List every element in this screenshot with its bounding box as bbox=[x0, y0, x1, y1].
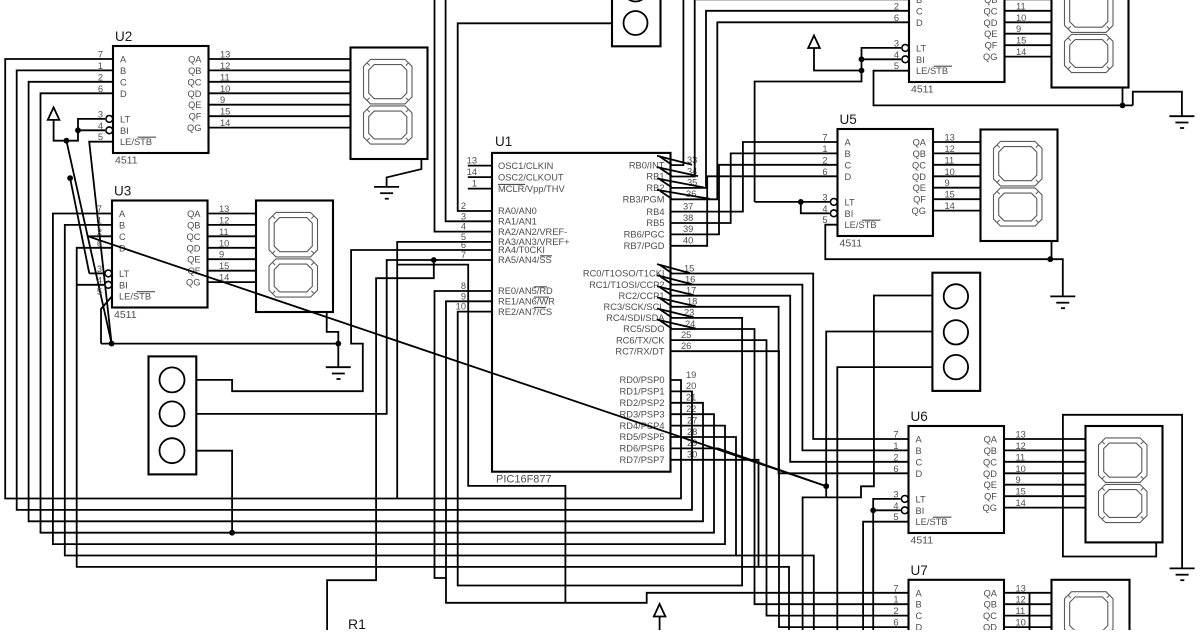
wire J2 pin2 to U1 RA5 bbox=[196, 260, 492, 414]
svg-text:RA4/T0CKI: RA4/T0CKI bbox=[498, 245, 545, 255]
svg-text:7: 7 bbox=[893, 430, 898, 440]
wire long diagonal RD6 net bbox=[88, 236, 826, 486]
svg-text:QG: QG bbox=[983, 52, 997, 62]
svg-text:OSC1/CLKIN: OSC1/CLKIN bbox=[498, 161, 553, 171]
svg-text:RB6/PGC: RB6/PGC bbox=[624, 230, 665, 240]
svg-text:QE: QE bbox=[913, 183, 926, 193]
svg-text:A: A bbox=[119, 209, 126, 219]
wire U5 QF to display bbox=[933, 198, 981, 200]
svg-text:25: 25 bbox=[681, 330, 691, 340]
wire U5 QB to display bbox=[933, 152, 981, 154]
svg-text:RD7/PSP7: RD7/PSP7 bbox=[620, 455, 665, 465]
decorative diagonal at RB1 bbox=[657, 167, 698, 176]
wire DS5 common bbox=[1051, 242, 1053, 260]
svg-text:LE/STB: LE/STB bbox=[120, 137, 152, 147]
wire U5 input A from RB4 bbox=[671, 142, 838, 212]
connector J3 circle 1 bbox=[944, 284, 968, 308]
svg-text:RD0/PSP0: RD0/PSP0 bbox=[620, 375, 665, 385]
4511 decoder U7 bbox=[909, 580, 1005, 635]
wire U4 QD to display bbox=[1005, 21, 1052, 23]
decorative diagonal short at RB3 bbox=[660, 191, 672, 199]
decorative diagonal at RC1 bbox=[657, 275, 692, 284]
svg-text:1: 1 bbox=[97, 215, 102, 225]
wire U6 input A from RC0 bbox=[671, 274, 909, 440]
svg-text:6: 6 bbox=[893, 464, 898, 474]
wire U7 QB to display bbox=[1004, 603, 1052, 605]
svg-text:14: 14 bbox=[1016, 47, 1026, 57]
svg-text:QA: QA bbox=[984, 435, 998, 445]
svg-text:10: 10 bbox=[945, 167, 955, 177]
svg-text:11: 11 bbox=[220, 72, 230, 82]
svg-text:RA0/AN0: RA0/AN0 bbox=[498, 206, 537, 216]
wire U4 input A from RB0 bbox=[671, 0, 910, 165]
svg-text:A: A bbox=[916, 588, 923, 598]
wire RA3 branch down to bus bbox=[396, 265, 398, 499]
svg-text:9: 9 bbox=[1016, 475, 1021, 485]
svg-text:QG: QG bbox=[187, 123, 201, 133]
svg-text:2: 2 bbox=[97, 227, 102, 237]
wire ground stem U3 bbox=[337, 344, 339, 368]
wire U3 BI bbox=[77, 284, 104, 286]
svg-text:OSC2/CLKOUT: OSC2/CLKOUT bbox=[498, 172, 564, 182]
junction VDD diagonal top bbox=[67, 175, 73, 181]
wire U6 LT bbox=[873, 499, 900, 630]
overline CS bbox=[534, 306, 546, 308]
svg-text:C: C bbox=[916, 611, 923, 621]
svg-text:BI: BI bbox=[916, 55, 925, 65]
svg-text:LE/STB: LE/STB bbox=[916, 517, 948, 527]
wire top connector to U1 RA0 bbox=[458, 23, 612, 211]
wire U1 pin 14 stub bbox=[468, 176, 492, 178]
svg-text:7: 7 bbox=[461, 250, 466, 260]
svg-text:RE2/AN7/CS: RE2/AN7/CS bbox=[498, 307, 552, 317]
svg-text:BI: BI bbox=[119, 280, 128, 290]
svg-text:11: 11 bbox=[1016, 452, 1026, 462]
inversion bubble of U4 bbox=[902, 56, 909, 63]
svg-text:3: 3 bbox=[894, 38, 899, 48]
7-segment display DS4 bbox=[1052, 0, 1129, 88]
wire U7 QD to display bbox=[1004, 626, 1052, 628]
svg-text:RB3/PGM: RB3/PGM bbox=[623, 195, 665, 205]
svg-text:12: 12 bbox=[1016, 441, 1026, 451]
connector J2 circle 1 bbox=[160, 367, 185, 392]
svg-text:5: 5 bbox=[98, 132, 103, 142]
wire U2 QE to display bbox=[209, 104, 351, 106]
svg-text:10: 10 bbox=[1016, 618, 1026, 628]
svg-text:RA5/AN4/SS: RA5/AN4/SS bbox=[498, 255, 552, 265]
inversion bubble of U3 bbox=[105, 270, 112, 277]
svg-text:11: 11 bbox=[945, 155, 955, 165]
wire U7 input D from RC7 bbox=[671, 351, 909, 627]
svg-text:LT: LT bbox=[916, 43, 926, 53]
svg-text:QB: QB bbox=[187, 220, 200, 230]
wire U1 RE1 down with step to U7 A feed bbox=[446, 301, 909, 603]
connector J2 left bbox=[149, 356, 197, 474]
connector J2 circle 2 bbox=[160, 401, 185, 426]
wire U3 QD to display bbox=[208, 247, 257, 249]
svg-text:QC: QC bbox=[983, 457, 997, 467]
svg-text:QG: QG bbox=[912, 206, 926, 216]
wire U2 QD to display bbox=[209, 92, 351, 94]
svg-text:QC: QC bbox=[912, 160, 926, 170]
wire U3 LE/STB bbox=[101, 296, 112, 343]
wire U7 input C from RC6 bbox=[671, 340, 909, 615]
svg-text:4: 4 bbox=[893, 501, 898, 511]
7-segment display DS7 bbox=[1052, 580, 1130, 634]
svg-text:QC: QC bbox=[188, 77, 202, 87]
svg-text:9: 9 bbox=[220, 95, 225, 105]
wire U2 QG to display bbox=[209, 127, 351, 129]
decorative diagonal short at RC2 bbox=[660, 287, 672, 295]
junction DS4 common bbox=[1120, 103, 1126, 109]
svg-text:5: 5 bbox=[97, 287, 102, 297]
svg-text:RC3/SCK/SCL: RC3/SCK/SCL bbox=[604, 302, 665, 312]
svg-text:15: 15 bbox=[1016, 487, 1026, 497]
4511 decoder U6 bbox=[909, 426, 1005, 533]
svg-text:RB5: RB5 bbox=[646, 218, 664, 228]
inversion bubble of U5 bbox=[830, 210, 837, 217]
overline STB of U3 bbox=[137, 291, 156, 293]
decorative diagonal short at RB0 bbox=[660, 157, 672, 165]
overline RD bbox=[534, 286, 547, 288]
junction U6 BI bbox=[870, 507, 876, 513]
inversion bubble of U2 bbox=[106, 116, 113, 123]
wire U5 QA to display bbox=[933, 141, 981, 143]
wire U4 LE/STB to ground rail bbox=[874, 71, 1133, 106]
svg-text:19: 19 bbox=[686, 370, 696, 380]
wire RD6 stub and diagonal bbox=[671, 448, 827, 486]
7-segment display DS5 bbox=[981, 130, 1058, 242]
svg-text:4: 4 bbox=[461, 222, 466, 232]
svg-text:QD: QD bbox=[912, 172, 926, 182]
svg-text:MCLR/Vpp/THV: MCLR/Vpp/THV bbox=[498, 184, 565, 194]
svg-text:3: 3 bbox=[98, 109, 103, 119]
svg-text:A: A bbox=[120, 55, 127, 65]
overline MCLR bbox=[498, 183, 525, 185]
svg-text:13: 13 bbox=[1016, 430, 1026, 440]
svg-text:12: 12 bbox=[219, 215, 229, 225]
overline STB of U2 bbox=[138, 136, 157, 138]
svg-text:7: 7 bbox=[98, 50, 103, 60]
wire U5 input C from RB6 bbox=[671, 165, 838, 235]
svg-text:R1: R1 bbox=[348, 616, 366, 630]
wire U3 QC to display bbox=[208, 235, 257, 237]
overline STB of U4 bbox=[934, 65, 953, 67]
wire bus line 6 continuation bbox=[759, 567, 790, 630]
svg-text:B: B bbox=[845, 149, 851, 159]
wire U6 QE to display bbox=[1004, 484, 1086, 486]
svg-text:QB: QB bbox=[984, 0, 997, 5]
svg-text:B: B bbox=[916, 446, 922, 456]
wire U6 BI bbox=[873, 509, 900, 511]
svg-text:LE/STB: LE/STB bbox=[119, 292, 151, 302]
svg-text:RC0/T1OSO/T1CKI: RC0/T1OSO/T1CKI bbox=[583, 269, 665, 279]
svg-text:RC5/SDO: RC5/SDO bbox=[623, 324, 664, 334]
svg-text:11: 11 bbox=[1016, 606, 1026, 616]
svg-text:RC2/CCP1: RC2/CCP1 bbox=[619, 291, 665, 301]
svg-text:RC4/SDI/SDA: RC4/SDI/SDA bbox=[606, 313, 665, 323]
svg-text:QB: QB bbox=[913, 149, 926, 159]
connector J1 pin circle bbox=[624, 11, 648, 35]
wire to ground top right bbox=[1133, 92, 1182, 117]
4511 decoder U5 bbox=[838, 129, 934, 236]
svg-text:B: B bbox=[916, 600, 922, 610]
svg-text:5: 5 bbox=[894, 61, 899, 71]
svg-text:RD1/PSP1: RD1/PSP1 bbox=[620, 387, 665, 397]
svg-text:RC7/RX/DT: RC7/RX/DT bbox=[615, 346, 664, 356]
wire U5 input D from RB7 bbox=[671, 176, 838, 246]
power arrow VDD near U4 bbox=[808, 36, 820, 49]
wire U5 QE to display bbox=[933, 187, 981, 189]
svg-text:A: A bbox=[845, 138, 852, 148]
svg-text:4: 4 bbox=[98, 121, 103, 131]
decorative diagonal at RB0 bbox=[657, 156, 692, 165]
wire U3 LT bbox=[89, 272, 104, 274]
wire diagonal branch to U3 LT bbox=[70, 178, 89, 273]
decorative diagonal at RC2 bbox=[657, 286, 694, 295]
wire U1 RA2 up bbox=[435, 0, 493, 232]
junction U2 LT/BI bbox=[75, 127, 81, 133]
svg-text:QE: QE bbox=[187, 255, 200, 265]
wire J2 pin1 to U1 RA4 bbox=[196, 250, 492, 391]
svg-text:1: 1 bbox=[472, 179, 477, 189]
svg-text:QC: QC bbox=[983, 611, 997, 621]
junction DS3 common and ground bbox=[335, 341, 341, 347]
connector J3 circle 2 bbox=[944, 320, 968, 344]
wire U4 QE to display bbox=[1005, 33, 1052, 35]
svg-text:B: B bbox=[119, 220, 125, 230]
svg-text:U2: U2 bbox=[115, 29, 132, 44]
svg-text:26: 26 bbox=[681, 341, 691, 351]
ground bottom right bbox=[1170, 568, 1195, 580]
svg-text:QG: QG bbox=[186, 278, 200, 288]
svg-text:LT: LT bbox=[119, 269, 129, 279]
svg-text:LT: LT bbox=[916, 494, 926, 504]
svg-text:C: C bbox=[119, 232, 126, 242]
decorative diagonal short at RC5 bbox=[660, 321, 672, 329]
wire ground rail under U3 bbox=[101, 343, 338, 345]
junction U2 BI wire to diagonal bbox=[64, 138, 70, 144]
wire U7 input B from RC5 bbox=[671, 329, 909, 604]
4511 decoder U4 bbox=[909, 0, 1005, 82]
svg-text:9: 9 bbox=[945, 178, 950, 188]
svg-text:7: 7 bbox=[822, 133, 827, 143]
svg-text:BI: BI bbox=[120, 126, 129, 136]
wire J3 pin1 chain with jog bbox=[803, 296, 933, 631]
svg-text:RD5/PSP5: RD5/PSP5 bbox=[620, 432, 665, 442]
svg-text:U5: U5 bbox=[840, 112, 857, 127]
svg-text:5: 5 bbox=[893, 512, 898, 522]
wire U7 QA to display bbox=[1004, 592, 1052, 594]
wire U2 input B bbox=[17, 70, 692, 510]
svg-text:QE: QE bbox=[984, 480, 997, 490]
wire U4 input B from RB1 bbox=[671, 0, 910, 177]
svg-text:QF: QF bbox=[985, 41, 998, 51]
connector J3 right bbox=[932, 273, 980, 391]
svg-text:B: B bbox=[916, 0, 922, 5]
connector J2 circle 3 bbox=[160, 438, 185, 463]
svg-text:3: 3 bbox=[822, 192, 827, 202]
wire U2 LT bbox=[54, 119, 105, 141]
wire U6 QD to display bbox=[1004, 472, 1086, 474]
junction U4 BI bbox=[859, 56, 865, 62]
svg-text:4511: 4511 bbox=[114, 309, 137, 321]
wire J2 pin3 down bbox=[196, 451, 232, 533]
svg-text:QA: QA bbox=[188, 55, 202, 65]
svg-text:14: 14 bbox=[467, 167, 477, 177]
svg-text:15: 15 bbox=[1016, 36, 1026, 46]
svg-text:D: D bbox=[120, 89, 127, 99]
ground mid right bbox=[1050, 296, 1075, 308]
svg-text:2: 2 bbox=[893, 606, 898, 616]
7-segment display DS6 bbox=[1086, 426, 1163, 542]
svg-text:10: 10 bbox=[1016, 464, 1026, 474]
svg-text:12: 12 bbox=[1016, 595, 1026, 605]
svg-text:RA1/AN1: RA1/AN1 bbox=[498, 217, 537, 227]
wire U2 QA to display bbox=[209, 58, 351, 60]
wire U2 LE/STB diagonal bbox=[89, 142, 113, 344]
svg-text:4511: 4511 bbox=[911, 535, 934, 547]
svg-text:1: 1 bbox=[822, 144, 827, 154]
wire U3 input B bbox=[65, 225, 736, 556]
wire DS7 common down bbox=[1029, 593, 1031, 630]
wire RA5 branch to R1 net bbox=[327, 260, 434, 630]
svg-text:3: 3 bbox=[893, 489, 898, 499]
svg-text:9: 9 bbox=[461, 291, 466, 301]
junction RA5 branch bbox=[431, 257, 437, 263]
wire U4 input C from RB2 bbox=[671, 11, 910, 188]
svg-text:37: 37 bbox=[683, 201, 693, 211]
wire DS6 common loop bbox=[1063, 415, 1182, 569]
svg-text:4: 4 bbox=[97, 275, 102, 285]
wire U1 RE2 down and right to RC4 riser bbox=[458, 312, 742, 586]
svg-text:QD: QD bbox=[983, 623, 997, 630]
wire U4 LT bbox=[755, 48, 901, 202]
wire U4 QF to display bbox=[1005, 44, 1052, 46]
junction DS5 common bbox=[1047, 256, 1053, 262]
svg-text:QF: QF bbox=[984, 492, 997, 502]
svg-text:6: 6 bbox=[822, 167, 827, 177]
svg-text:D: D bbox=[916, 623, 923, 630]
overline SS bbox=[540, 255, 552, 257]
wire U5 LT bbox=[755, 201, 830, 203]
svg-text:6: 6 bbox=[894, 13, 899, 23]
decorative diagonal at RB2 bbox=[657, 179, 704, 188]
wire U5 input B from RB5 bbox=[671, 153, 838, 223]
svg-text:RA2/AN2/VREF-: RA2/AN2/VREF- bbox=[498, 227, 567, 237]
svg-text:QD: QD bbox=[187, 243, 201, 253]
svg-text:14: 14 bbox=[220, 118, 230, 128]
svg-text:1: 1 bbox=[98, 61, 103, 71]
7-segment display DS3 bbox=[256, 201, 333, 313]
connector J1 pin circle 2 bbox=[624, 0, 648, 2]
wire U5 LE/STB bbox=[825, 225, 1050, 260]
junction J2 pin3 bus bbox=[229, 530, 235, 536]
wire U1 RE0 down with jog bbox=[435, 291, 493, 578]
svg-text:13: 13 bbox=[467, 156, 477, 166]
svg-text:RC6/TX/CK: RC6/TX/CK bbox=[616, 335, 665, 345]
wire U6 input B from RC1 bbox=[671, 285, 909, 451]
7-segment display DS2 bbox=[351, 48, 428, 160]
svg-text:7: 7 bbox=[893, 583, 898, 593]
wire U5 QC to display bbox=[933, 164, 981, 166]
inversion bubble of U4 bbox=[902, 45, 909, 52]
svg-text:13: 13 bbox=[1016, 583, 1026, 593]
svg-text:39: 39 bbox=[683, 224, 693, 234]
junction diagonal at ground rail bbox=[109, 341, 115, 347]
inversion bubble of U3 bbox=[105, 281, 112, 288]
svg-text:QD: QD bbox=[984, 18, 998, 28]
wire DS3 common bbox=[327, 312, 339, 344]
wire arrow stem bottom bbox=[659, 617, 661, 631]
svg-text:2: 2 bbox=[461, 201, 466, 211]
wire U3 QE to display bbox=[208, 258, 257, 260]
svg-text:QE: QE bbox=[188, 100, 201, 110]
decorative diagonal short at RB2 bbox=[660, 180, 672, 188]
svg-text:U6: U6 bbox=[911, 409, 928, 424]
wire J3 pin3 down bbox=[837, 367, 932, 630]
wire U5 QD to display bbox=[933, 175, 981, 177]
wire U5 QG to display bbox=[933, 210, 981, 212]
decorative diagonal at RC5 bbox=[657, 320, 696, 329]
wire U3 input D bbox=[77, 248, 759, 567]
wire U3 QA to display bbox=[208, 213, 257, 215]
wire U3 QF to display bbox=[208, 270, 257, 272]
svg-text:QF: QF bbox=[189, 112, 202, 122]
svg-text:2: 2 bbox=[894, 1, 899, 11]
wire U6 QB to display bbox=[1004, 449, 1086, 451]
4511 decoder U3 bbox=[112, 201, 208, 308]
svg-text:9: 9 bbox=[219, 250, 224, 260]
svg-text:QF: QF bbox=[913, 195, 926, 205]
connector J3 circle 3 bbox=[944, 355, 968, 379]
svg-text:QB: QB bbox=[984, 600, 997, 610]
wire U2 input C bbox=[29, 82, 703, 522]
svg-text:13: 13 bbox=[220, 50, 230, 60]
svg-text:10: 10 bbox=[220, 84, 230, 94]
svg-text:QD: QD bbox=[983, 469, 997, 479]
wire U5 BI bbox=[801, 202, 830, 213]
svg-text:5: 5 bbox=[822, 215, 827, 225]
junction diagonals meet bbox=[823, 483, 829, 489]
svg-text:15: 15 bbox=[219, 261, 229, 271]
svg-text:10: 10 bbox=[219, 238, 229, 248]
svg-text:LT: LT bbox=[120, 114, 130, 124]
microcontroller U1 PIC16F877 bbox=[492, 153, 671, 472]
wire U7 QC to display bbox=[1004, 615, 1052, 617]
svg-text:4511: 4511 bbox=[115, 155, 138, 167]
wire U1 RA1 up bbox=[446, 0, 492, 221]
wire U2 QC to display bbox=[209, 81, 351, 83]
svg-text:QG: QG bbox=[983, 503, 997, 513]
wire to ground mid right bbox=[1050, 259, 1063, 296]
junction U5 LT bbox=[798, 199, 804, 205]
svg-text:RB0/INT: RB0/INT bbox=[629, 160, 665, 170]
svg-text:9: 9 bbox=[1016, 24, 1021, 34]
svg-text:40: 40 bbox=[683, 236, 693, 246]
wire U4 QB to display bbox=[1005, 0, 1052, 1]
wire U6 QA to display bbox=[1004, 438, 1086, 440]
svg-text:RE0/AN5/RD: RE0/AN5/RD bbox=[498, 286, 553, 296]
wire bus line 5 continuation bbox=[736, 556, 814, 631]
wire U2 input D bbox=[41, 93, 715, 532]
ground below U3 rail bbox=[326, 367, 351, 379]
svg-text:10: 10 bbox=[456, 302, 466, 312]
svg-text:36: 36 bbox=[686, 189, 696, 199]
svg-text:QA: QA bbox=[187, 209, 201, 219]
svg-text:11: 11 bbox=[219, 227, 229, 237]
wire U6 QF to display bbox=[1004, 495, 1086, 497]
